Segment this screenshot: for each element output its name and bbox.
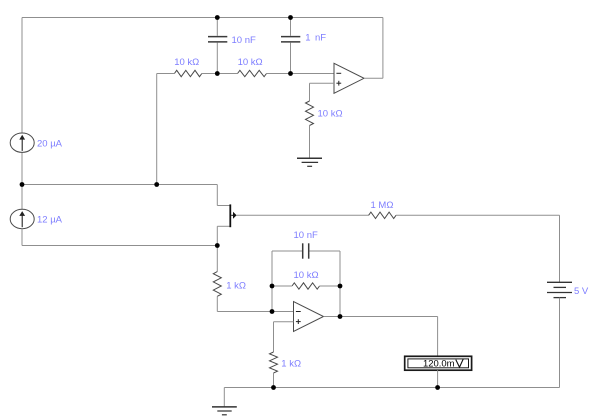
wire R6 bottom to bottom net xyxy=(273,373,275,388)
resistor R6 1 k xyxy=(270,352,278,373)
ground G1 xyxy=(297,158,322,166)
wire U2 non-inverting input lead xyxy=(274,321,294,323)
capacitor C3 10 nF xyxy=(303,243,309,258)
wire source net horizontal to node S xyxy=(22,245,217,247)
wire R5 bottom lead xyxy=(216,296,218,311)
resistor R7 1 M xyxy=(369,212,396,218)
wire node G horizontal to transistor Q1 drain corner xyxy=(22,184,217,186)
wire feedback left vertical to node F xyxy=(271,251,273,312)
node B junction xyxy=(288,71,293,76)
wire vertical from resistor R1 left end down to node G xyxy=(156,74,158,185)
wire top net from node IN to op-amp U1 output corner xyxy=(22,17,383,19)
svg-text:10 kΩ: 10 kΩ xyxy=(238,57,263,68)
wire U1 output lead xyxy=(364,77,383,79)
voltmeter M1 reading 120.0m V xyxy=(405,356,472,370)
op-amp U2 xyxy=(294,302,324,332)
wire down to voltmeter M1 xyxy=(437,317,439,357)
capacitor C1 10 nF xyxy=(208,37,227,42)
resistor R2 10 k xyxy=(238,70,267,76)
wire R3 bottom to ground xyxy=(309,126,311,159)
ground G2 xyxy=(212,407,237,415)
node G junction at I1/I2 xyxy=(20,182,25,187)
wire Q1 drain leg vertical xyxy=(216,185,218,206)
wire left vertical to current source I1 xyxy=(21,18,23,134)
op-amp U1 xyxy=(334,63,364,93)
svg-text:1 kΩ: 1 kΩ xyxy=(226,281,246,292)
svg-text:10 kΩ: 10 kΩ xyxy=(174,57,199,68)
svg-text:10 kΩ: 10 kΩ xyxy=(318,109,343,120)
wire R7 to battery top corner xyxy=(396,214,560,216)
svg-text:12 µA: 12 µA xyxy=(37,215,63,226)
transistor Q1 xyxy=(230,204,236,227)
wire feedback right vertical to U2 output node xyxy=(339,251,341,317)
wire R4 right lead xyxy=(320,285,341,287)
node F junction at U2 inverting input xyxy=(270,309,275,314)
resistor R4 10 k xyxy=(292,283,320,289)
resistor R1 10 k xyxy=(174,70,201,76)
wire C1 bottom lead to node A xyxy=(216,43,218,74)
svg-text:1 nF: 1 nF xyxy=(305,32,326,43)
wire voltmeter M1 bottom lead xyxy=(437,370,439,387)
bottom net junction at R6 xyxy=(271,385,276,390)
wire Q1 source leg vertical to node S xyxy=(216,226,218,245)
wire C2 top lead xyxy=(290,18,292,36)
node C2 top junction xyxy=(288,15,293,20)
junction at R4 right xyxy=(338,284,343,289)
wire U1 output up to top net xyxy=(382,18,384,79)
wire R1 right lead to node A xyxy=(202,73,218,75)
wire C3 left lead xyxy=(272,250,302,252)
wire battery V1 top lead xyxy=(559,215,561,282)
resistor R3 10 k xyxy=(306,101,314,126)
wire C1 top lead xyxy=(216,18,218,36)
node A junction xyxy=(215,71,220,76)
wire bottom net to ground G2 xyxy=(223,388,225,407)
wire Q1 gate to resistor R7 xyxy=(237,214,369,216)
wire Q1 drain leg horizontal xyxy=(217,205,229,207)
wire node G down to current source I2 xyxy=(21,185,23,210)
wire C3 right lead xyxy=(309,250,340,252)
battery V1 5 V xyxy=(547,282,572,297)
svg-text:10 nF: 10 nF xyxy=(232,35,256,46)
wire R2 left lead from node A xyxy=(217,73,237,75)
wire node S down to resistor R5 xyxy=(216,246,218,272)
wire down to resistor R6 xyxy=(273,322,275,352)
wire U2 output to voltmeter corner xyxy=(324,316,438,318)
wire node B to U1 inverting input xyxy=(291,73,335,75)
capacitor C2 1 nF xyxy=(281,37,300,42)
current source I2 12 uA xyxy=(10,209,34,228)
resistor R5 1 k xyxy=(213,272,221,297)
wire I2 bottom down to source net xyxy=(21,229,23,246)
current source I1 20 uA xyxy=(10,133,34,152)
wire R1 left lead xyxy=(157,73,175,75)
wire R2 right lead to node B xyxy=(267,73,291,75)
svg-text:10 nF: 10 nF xyxy=(294,230,318,241)
wire C2 bottom lead to node B xyxy=(290,43,292,74)
wire to U2 inverting input xyxy=(217,311,293,313)
wire R4 left lead xyxy=(272,285,292,287)
wire bottom net horizontal xyxy=(224,387,559,389)
svg-text:20 µA: 20 µA xyxy=(37,139,63,150)
svg-text:1 kΩ: 1 kΩ xyxy=(281,359,301,370)
node C1 top junction xyxy=(215,15,220,20)
node F junction at R4 left xyxy=(270,284,275,289)
svg-text:1 MΩ: 1 MΩ xyxy=(371,200,394,211)
svg-text:5 V: 5 V xyxy=(574,286,589,297)
wire U1 non-inverting input lead xyxy=(310,82,335,84)
node G junction at R1 branch xyxy=(154,182,159,187)
junction at U2 output xyxy=(338,314,343,319)
wire I1 bottom to node G xyxy=(21,152,23,184)
wire battery V1 bottom lead down to bottom net xyxy=(559,298,561,388)
svg-text:10 kΩ: 10 kΩ xyxy=(294,270,319,281)
node S junction xyxy=(215,243,220,248)
wire Q1 source leg horizontal xyxy=(217,225,229,227)
bottom net junction at voltmeter xyxy=(435,385,440,390)
wire down to resistor R3 xyxy=(309,83,311,101)
svg-text:120.0m: 120.0m xyxy=(423,359,455,370)
